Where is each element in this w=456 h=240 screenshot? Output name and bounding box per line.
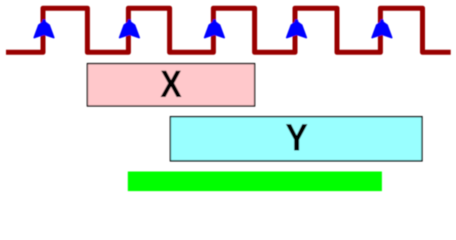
svg-text:Y: Y: [285, 116, 308, 159]
svg-text:X: X: [160, 63, 182, 105]
rising-edge arrow 2: [120, 20, 140, 37]
rising-edge arrow 5: [372, 20, 392, 37]
signal X box: [87, 64, 254, 106]
rising-edge arrow 3: [205, 20, 225, 37]
green enable bar: [128, 172, 382, 192]
rising-edge arrow 1: [34, 20, 54, 37]
clock waveform CLK: [6, 8, 451, 52]
rising-edge arrow 4: [287, 20, 307, 37]
signal Y box: [170, 117, 422, 161]
